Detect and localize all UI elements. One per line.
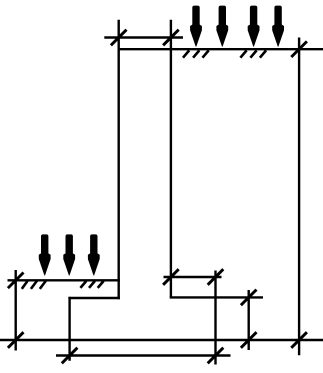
load arrow 5 on lower ledge — [39, 235, 50, 275]
tick at stem right face on top dimension — [163, 30, 179, 46]
wire: footing width dimension line (bottom) — [56, 354, 231, 356]
hatch group on upper surface (left set of 3) — [183, 50, 209, 57]
wire: footing left face vertical — [68, 297, 70, 361]
wire: footing top line (left of stem) — [68, 297, 120, 299]
wire: stem width dimension line (top) — [104, 36, 183, 38]
wire: footing top line (right of stem, extends as extension line) — [170, 296, 263, 298]
wire: right toe width dimension line — [164, 276, 222, 278]
load arrow 1 on upper surface — [191, 6, 202, 46]
wire: footing depth dimension vertical — [247, 290, 249, 350]
wire: footing right face vertical (extension line) — [214, 271, 216, 365]
load arrow 7 on lower ledge — [88, 235, 99, 275]
load arrow 3 on upper surface — [248, 6, 259, 46]
tick at right boundary on upper surface — [291, 41, 307, 57]
hatch group on lower surface (left set of 3) — [22, 280, 46, 289]
wire: left height dimension vertical — [14, 270, 16, 351]
tick at stem right face on toe dimension — [163, 269, 179, 285]
wire: bottom line of footing (full-width, doubles as extension line) — [0, 339, 323, 341]
load arrow 4 on upper surface — [273, 6, 284, 46]
tick at right boundary on bottom line — [291, 332, 307, 348]
hatch group on upper surface (right set of 3) — [240, 50, 266, 57]
load arrow 2 on upper surface — [217, 6, 228, 46]
node: stem left face vertical line — [117, 20, 119, 300]
tick at footing left face on bottom dimension — [62, 348, 78, 364]
tick at lower surface on left dimension — [8, 273, 24, 289]
tick at left dimension on bottom line — [8, 332, 24, 348]
node: stem right face vertical line — [170, 20, 172, 298]
wire: right boundary vertical (overall height dimension) — [298, 38, 300, 356]
load arrow 6 on lower ledge — [64, 235, 75, 275]
hatch group on lower surface (right set of 3) — [80, 281, 103, 288]
tick at footing right face on bottom dimension — [208, 348, 224, 364]
tick at stem left face on top dimension — [111, 30, 127, 46]
wire: lower ground surface line (left ledge) — [8, 279, 120, 281]
tick at footing-depth dimension top — [241, 290, 257, 306]
tick at footing right face on toe dimension — [208, 269, 224, 285]
tick at footing-depth dimension bottom — [241, 332, 257, 348]
wire: upper ground surface line (top, doubles as extension line) — [118, 48, 323, 50]
